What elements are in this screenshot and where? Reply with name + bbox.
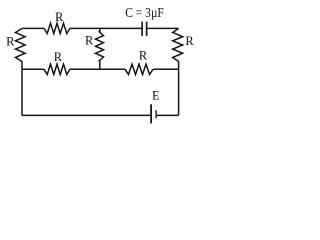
- wire top-middle: R1 to capacitor: [70, 27, 142, 29]
- wire bottom right: battery to corner: [157, 114, 179, 116]
- resistor R4 (right vertical, on right edge): [173, 28, 183, 61]
- resistor R2 (left vertical, on left edge): [16, 28, 26, 61]
- battery E, short plate: [155, 110, 157, 118]
- battery E, long plate: [150, 104, 152, 123]
- wire middle row right: [153, 68, 179, 70]
- svg-text:C = 3µF: C = 3µF: [125, 5, 164, 20]
- wire middle row left: [22, 68, 44, 70]
- svg-text:R: R: [54, 50, 63, 64]
- capacitor C, C = 3uF: [141, 22, 143, 36]
- svg-text:R: R: [85, 33, 94, 47]
- svg-text:R: R: [139, 49, 148, 63]
- svg-text:R: R: [55, 10, 64, 24]
- svg-text:R: R: [185, 34, 194, 48]
- resistor R5 (middle row, left horizontal): [44, 64, 70, 74]
- resistor R6 (middle row, right horizontal): [125, 64, 153, 74]
- wire middle row center: [70, 68, 125, 70]
- resistor R3 (middle vertical): [96, 28, 104, 69]
- svg-text:R: R: [6, 35, 15, 49]
- wire top-right: capacitor to right corner: [147, 27, 179, 29]
- resistor R1 (top horizontal): [44, 23, 70, 33]
- wire right edge: below R4 to bottom-right corner: [178, 61, 180, 115]
- wire left edge: below R2 to bottom-left corner: [21, 61, 23, 115]
- wire top-left: left corner to R1: [22, 27, 44, 29]
- wire bottom left: corner to battery: [22, 114, 150, 116]
- svg-text:E: E: [152, 88, 160, 102]
